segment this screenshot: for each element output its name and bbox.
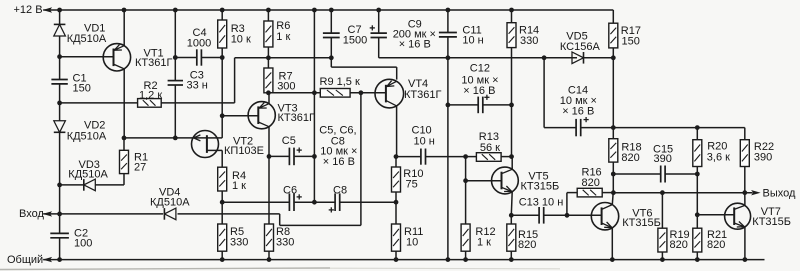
svg-text:3,6 к: 3,6 к [707, 152, 730, 164]
svg-text:27: 27 [134, 162, 146, 174]
svg-text:КТ361Г: КТ361Г [404, 89, 441, 101]
svg-text:330: 330 [230, 236, 248, 248]
svg-text:КТ315Б: КТ315Б [521, 181, 560, 193]
svg-text:× 16 В: × 16 В [323, 156, 355, 168]
svg-text:10 н: 10 н [462, 35, 483, 47]
svg-text:820: 820 [582, 177, 600, 189]
svg-text:10 к: 10 к [231, 33, 251, 45]
svg-text:100: 100 [74, 237, 92, 249]
svg-text:150: 150 [73, 83, 91, 95]
svg-text:C13 10 н: C13 10 н [519, 196, 564, 208]
svg-text:390: 390 [654, 153, 672, 165]
svg-text:1,2 к: 1,2 к [139, 90, 162, 102]
svg-text:330: 330 [276, 236, 294, 248]
svg-text:1 к: 1 к [477, 236, 491, 248]
svg-text:+12 В: +12 В [14, 4, 43, 16]
svg-text:56 к: 56 к [480, 142, 500, 154]
svg-text:КД510А: КД510А [67, 130, 107, 142]
svg-text:КД510А: КД510А [68, 169, 108, 181]
svg-text:C6: C6 [283, 184, 297, 196]
svg-text:1 к: 1 к [232, 180, 246, 192]
svg-text:R9 1,5 к: R9 1,5 к [320, 76, 360, 88]
svg-text:1000: 1000 [187, 37, 211, 49]
svg-text:820: 820 [518, 239, 536, 251]
svg-text:300: 300 [277, 81, 295, 93]
svg-text:33 н: 33 н [187, 80, 208, 92]
svg-text:820: 820 [670, 239, 688, 251]
svg-text:390: 390 [754, 151, 772, 163]
svg-text:C8: C8 [333, 184, 347, 196]
svg-text:КД510А: КД510А [150, 196, 190, 208]
svg-text:Вход: Вход [19, 208, 44, 220]
svg-text:Выход: Выход [763, 188, 796, 200]
svg-text:820: 820 [621, 152, 639, 164]
svg-text:КС156А: КС156А [560, 41, 601, 53]
svg-text:× 16 В: × 16 В [399, 38, 431, 50]
svg-text:C5, C6,: C5, C6, [319, 125, 356, 137]
svg-text:820: 820 [707, 239, 725, 251]
svg-text:1 к: 1 к [276, 31, 290, 43]
svg-text:330: 330 [520, 35, 538, 47]
svg-text:КТ361Г: КТ361Г [135, 57, 172, 69]
svg-text:C12: C12 [470, 63, 490, 75]
svg-text:10 н: 10 н [414, 135, 435, 147]
svg-text:КТ361Г: КТ361Г [278, 112, 315, 124]
svg-text:75: 75 [406, 179, 418, 191]
svg-text:C5: C5 [282, 135, 296, 147]
svg-text:10: 10 [406, 236, 418, 248]
svg-text:× 16 В: × 16 В [463, 85, 495, 97]
svg-text:1500: 1500 [343, 34, 367, 46]
svg-text:150: 150 [622, 36, 640, 48]
svg-text:Общий: Общий [7, 254, 43, 266]
svg-text:КП103Е: КП103Е [224, 145, 264, 157]
svg-text:КТ315Б: КТ315Б [752, 216, 791, 228]
svg-text:КТ315Б: КТ315Б [622, 217, 661, 229]
svg-text:× 16 В: × 16 В [562, 106, 594, 118]
svg-text:КД510А: КД510А [67, 33, 107, 45]
